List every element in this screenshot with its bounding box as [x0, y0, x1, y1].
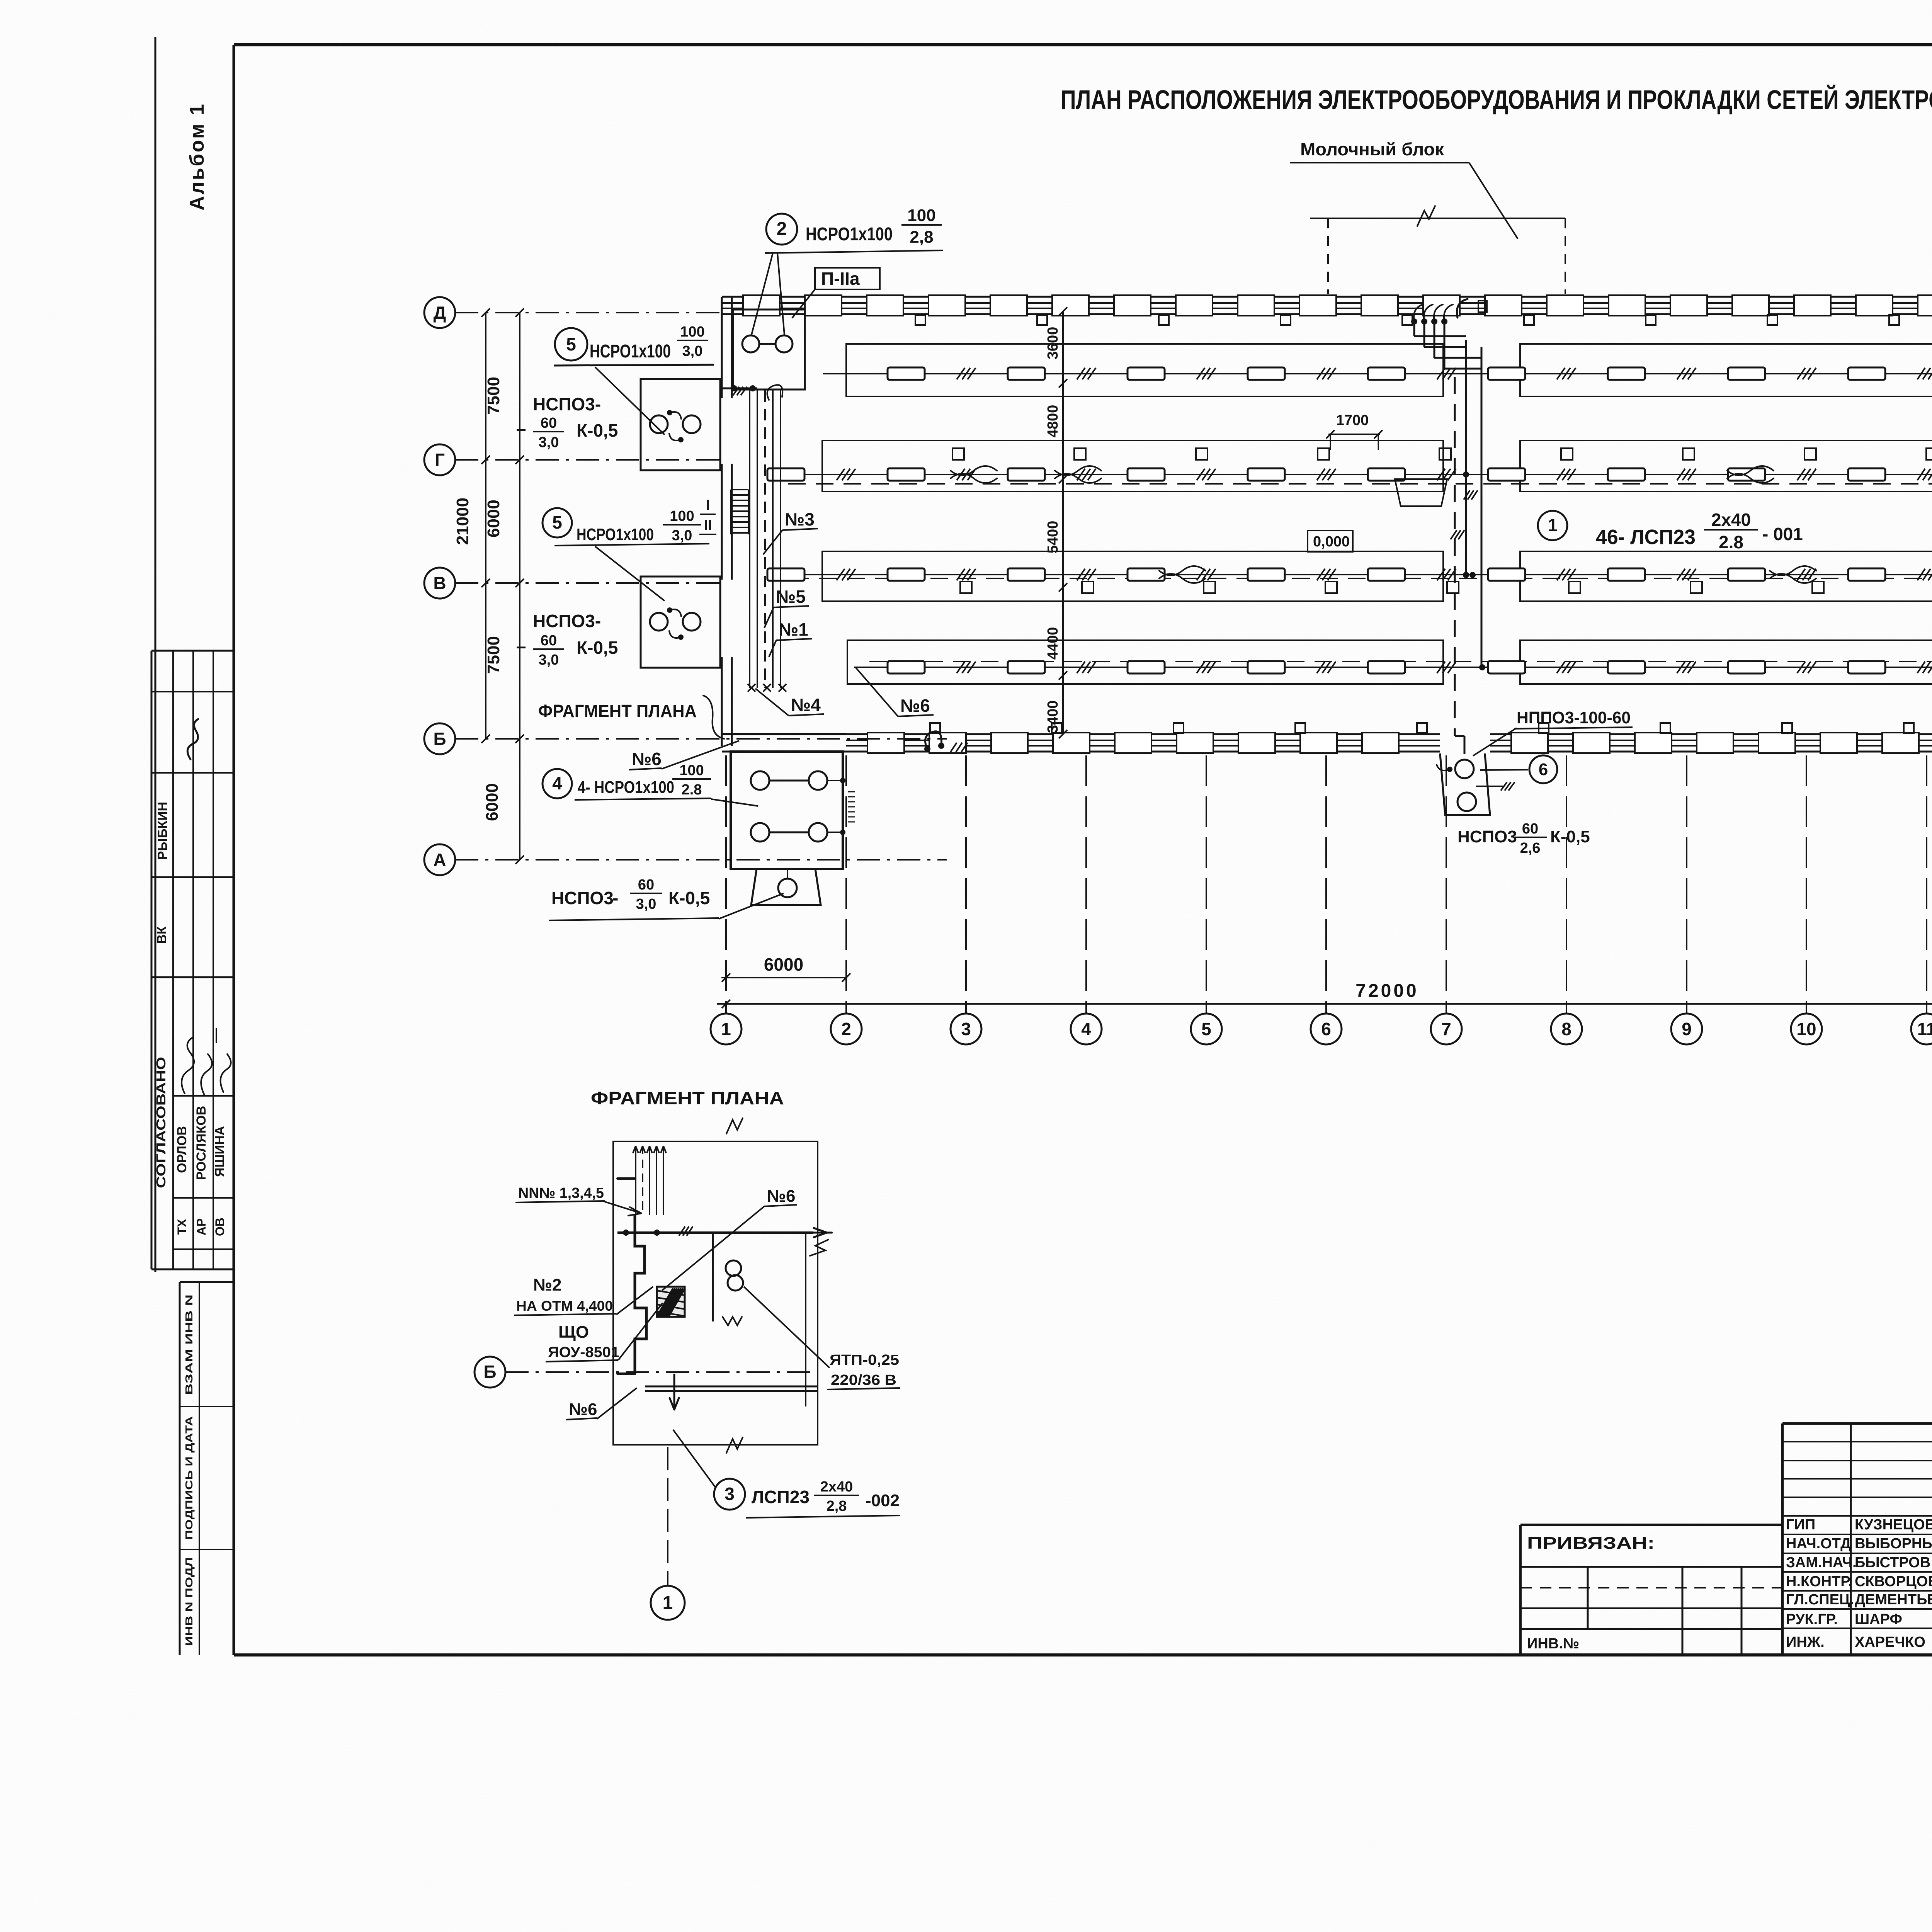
svg-text:АР: АР: [194, 1218, 208, 1235]
svg-text:ИНВ.№: ИНВ.№: [1527, 1636, 1579, 1652]
svg-text:РУК.ГР.: РУК.ГР.: [1786, 1611, 1838, 1628]
svg-text:2.8: 2.8: [1719, 532, 1743, 552]
svg-text:100: 100: [680, 324, 704, 340]
svg-text:9: 9: [1682, 1019, 1692, 1039]
svg-text:72000: 72000: [1355, 981, 1418, 1001]
svg-text:4800: 4800: [1045, 405, 1061, 438]
svg-text:А: А: [433, 850, 446, 870]
svg-text:100: 100: [670, 508, 694, 524]
svg-text:ТХ: ТХ: [175, 1219, 189, 1235]
svg-text:НСПО3-: НСПО3-: [533, 611, 601, 631]
svg-text:№4: №4: [791, 695, 821, 715]
svg-text:2,8: 2,8: [910, 228, 933, 247]
svg-text:5: 5: [552, 512, 562, 532]
svg-text:5: 5: [566, 334, 576, 354]
svg-text:ПЛАН РАСПОЛОЖЕНИЯ ЭЛЕКТРООБ: ПЛАН РАСПОЛОЖЕНИЯ ЭЛЕКТРООБОРУДОВАНИЯ И …: [1061, 84, 1932, 115]
svg-text:ЗАМ.НАЧ.: ЗАМ.НАЧ.: [1786, 1554, 1857, 1571]
svg-text:5400: 5400: [1045, 521, 1061, 554]
svg-text:3,0: 3,0: [672, 527, 692, 544]
svg-text:2: 2: [841, 1019, 851, 1039]
svg-text:4: 4: [552, 773, 562, 793]
svg-text:БЫСТРОВ: БЫСТРОВ: [1855, 1554, 1930, 1571]
svg-text:1: 1: [663, 1593, 673, 1613]
svg-text:-: -: [612, 888, 618, 908]
svg-text:4- НСРО1х100: 4- НСРО1х100: [578, 778, 674, 797]
svg-text:№2: №2: [533, 1276, 562, 1294]
svg-text:ВК: ВК: [155, 926, 169, 944]
svg-text:НСРО1х100: НСРО1х100: [577, 525, 654, 544]
svg-text:Б: Б: [483, 1362, 496, 1382]
svg-text:6000: 6000: [483, 783, 502, 821]
svg-text:НА ОТМ 4,400: НА ОТМ 4,400: [516, 1298, 613, 1314]
svg-text:60: 60: [541, 415, 557, 431]
svg-text:1: 1: [721, 1019, 731, 1039]
svg-text:2х40: 2х40: [820, 1479, 853, 1495]
svg-text:НСРО1х100: НСРО1х100: [806, 224, 893, 245]
svg-text:ФРАГМЕНТ ПЛАНА: ФРАГМЕНТ ПЛАНА: [591, 1088, 784, 1108]
svg-text:К-0,5: К-0,5: [668, 888, 710, 908]
svg-text:60: 60: [541, 633, 557, 649]
svg-text:–: –: [516, 636, 526, 656]
svg-text:–: –: [516, 418, 526, 439]
svg-text:2: 2: [777, 219, 787, 239]
svg-text:СКВОРЦОВА: СКВОРЦОВА: [1855, 1573, 1932, 1590]
svg-text:ЛСП23: ЛСП23: [752, 1487, 810, 1507]
svg-text:№5: №5: [776, 587, 806, 607]
svg-text:НАЧ.ОТД: НАЧ.ОТД: [1786, 1536, 1851, 1552]
svg-text:СОГЛАСОВАНО: СОГЛАСОВАНО: [154, 1057, 168, 1188]
svg-text:№3: №3: [785, 509, 815, 529]
svg-text:Молочный блок: Молочный блок: [1300, 139, 1444, 159]
svg-text:2,8: 2,8: [827, 1498, 847, 1514]
svg-text:ХАРЕЧКО: ХАРЕЧКО: [1855, 1634, 1925, 1650]
svg-text:NN№ 1,3,4,5: NN№ 1,3,4,5: [518, 1185, 604, 1201]
svg-text:РОСЛЯКОВ: РОСЛЯКОВ: [194, 1106, 209, 1180]
svg-text:ИНЖ.: ИНЖ.: [1786, 1634, 1825, 1650]
svg-text:2.8: 2.8: [682, 782, 702, 798]
svg-text:КУЗНЕЦОВ: КУЗНЕЦОВ: [1855, 1517, 1932, 1533]
svg-text:46- ЛСП23: 46- ЛСП23: [1596, 526, 1696, 549]
svg-text:7500: 7500: [484, 377, 503, 415]
svg-text:5: 5: [1201, 1019, 1211, 1039]
svg-text:Альбом 1: Альбом 1: [186, 102, 208, 211]
svg-text:ЯШИНА: ЯШИНА: [213, 1126, 227, 1177]
svg-text:НППО3-100-60: НППО3-100-60: [1517, 708, 1631, 727]
svg-text:ФРАГМЕНТ ПЛАНА: ФРАГМЕНТ ПЛАНА: [538, 701, 697, 721]
svg-text:№6: №6: [767, 1187, 796, 1206]
svg-text:РЫБКИН: РЫБКИН: [155, 802, 170, 860]
svg-text:1: 1: [1548, 515, 1558, 535]
svg-text:ИНВ N ПОДЛ: ИНВ N ПОДЛ: [183, 1557, 195, 1646]
svg-text:4400: 4400: [1045, 627, 1061, 660]
svg-text:НСПО3: НСПО3: [551, 888, 614, 908]
svg-text:ШАРФ: ШАРФ: [1855, 1611, 1902, 1628]
svg-text:2,6: 2,6: [1520, 840, 1541, 856]
svg-text:ДЕМЕНТЬЕВА: ДЕМЕНТЬЕВА: [1855, 1592, 1932, 1608]
svg-text:60: 60: [638, 877, 654, 893]
svg-text:В: В: [433, 573, 446, 593]
svg-text:ГИП: ГИП: [1786, 1517, 1815, 1533]
svg-text:2х40: 2х40: [1711, 510, 1751, 530]
svg-text:ОРЛОВ: ОРЛОВ: [175, 1126, 189, 1173]
svg-text:8: 8: [1561, 1019, 1571, 1039]
svg-text:I: I: [706, 497, 710, 514]
svg-text:7500: 7500: [484, 636, 503, 674]
svg-text:ПРИВЯЗАН:: ПРИВЯЗАН:: [1527, 1534, 1655, 1553]
svg-text:Н.КОНТР.: Н.КОНТР.: [1786, 1573, 1852, 1590]
svg-text:10: 10: [1796, 1019, 1816, 1039]
svg-text:220/36 В: 220/36 В: [831, 1372, 896, 1388]
svg-text:3: 3: [961, 1019, 971, 1039]
svg-text:№6: №6: [900, 696, 930, 716]
svg-text:11: 11: [1917, 1019, 1932, 1039]
svg-text:Г: Г: [435, 450, 445, 470]
svg-text:К-0,5: К-0,5: [1550, 827, 1590, 846]
svg-text:ВЗАМ ИНВ N: ВЗАМ ИНВ N: [183, 1294, 195, 1395]
svg-text:3,0: 3,0: [539, 434, 559, 451]
svg-text:ЯОУ-8501: ЯОУ-8501: [548, 1344, 619, 1361]
svg-text:НСРО1х100: НСРО1х100: [590, 341, 671, 362]
svg-text:6000: 6000: [484, 500, 503, 537]
svg-text:100: 100: [679, 762, 704, 779]
svg-text:3: 3: [724, 1484, 735, 1504]
svg-text:ЩО: ЩО: [558, 1323, 589, 1342]
svg-text:3,0: 3,0: [539, 652, 559, 668]
svg-text:ВЫБОРНЫЙ: ВЫБОРНЫЙ: [1855, 1534, 1932, 1552]
svg-text:100: 100: [907, 206, 935, 225]
svg-text:ГЛ.СПЕЦ.: ГЛ.СПЕЦ.: [1786, 1592, 1854, 1608]
svg-text:№6: №6: [632, 749, 662, 769]
svg-text:ПОДПИСЬ И ДАТА: ПОДПИСЬ И ДАТА: [183, 1416, 195, 1540]
svg-text:6: 6: [1539, 760, 1548, 779]
svg-text:6000: 6000: [764, 954, 803, 975]
svg-text:II: II: [704, 517, 712, 534]
svg-text:Д: Д: [434, 303, 446, 323]
svg-text:3,0: 3,0: [636, 896, 656, 912]
svg-text:- 001: - 001: [1762, 524, 1803, 544]
svg-text:№6: №6: [569, 1400, 597, 1419]
svg-text:21000: 21000: [453, 498, 472, 545]
svg-text:1700: 1700: [1336, 412, 1369, 429]
svg-text:-002: -002: [866, 1491, 900, 1510]
svg-text:ЯТП-0,25: ЯТП-0,25: [830, 1352, 899, 1368]
svg-text:Б: Б: [433, 729, 446, 749]
svg-text:3,0: 3,0: [682, 343, 703, 359]
svg-text:4: 4: [1081, 1019, 1091, 1039]
svg-text:НСПО3: НСПО3: [1458, 827, 1517, 846]
svg-text:НСПО3-: НСПО3-: [533, 394, 601, 414]
svg-text:0,000: 0,000: [1313, 534, 1350, 550]
svg-text:П-IIа: П-IIа: [821, 269, 860, 289]
svg-text:7: 7: [1441, 1019, 1451, 1039]
svg-text:ОВ: ОВ: [213, 1218, 227, 1236]
svg-text:К-0,5: К-0,5: [577, 638, 618, 658]
svg-text:6: 6: [1321, 1019, 1331, 1039]
svg-text:3600: 3600: [1045, 327, 1061, 360]
svg-text:60: 60: [1522, 821, 1538, 837]
svg-text:К-0,5: К-0,5: [577, 420, 618, 440]
svg-text:3400: 3400: [1045, 701, 1061, 733]
svg-text:№1: №1: [779, 619, 808, 639]
